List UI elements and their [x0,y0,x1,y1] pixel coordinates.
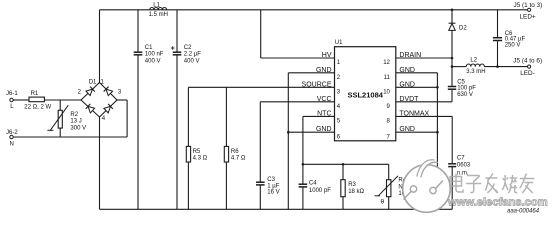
node rail/D2 junction [451,9,454,12]
inductor L2 3.3 mH [466,57,485,75]
svg-text:SOURCE: SOURCE [302,81,332,88]
svg-text:C7: C7 [457,155,465,161]
svg-text:100 nF: 100 nF [145,51,164,57]
svg-text:R2: R2 [70,112,78,118]
node NTC/R3 junction [342,163,345,166]
wire top rail [100,9,528,11]
resistor R3 18 kOhm [341,164,365,209]
svg-text:N: N [10,141,14,147]
inductor L1 1.5 mH [149,2,168,18]
wire GND pin 11 net [396,73,438,210]
svg-text:LED-: LED- [520,70,535,77]
svg-text:LED+: LED+ [520,14,536,21]
svg-text:C4: C4 [309,181,317,187]
wire GND pin 7 [396,131,438,133]
wire switch node vertical top [451,10,453,23]
svg-text:630 V: 630 V [457,92,473,98]
svg-text:0603: 0603 [457,162,471,168]
U1 right pin numbers 12-7 [383,60,390,140]
wire N line [13,136,127,138]
thermistor R4 NTC 100 kOhm [375,164,418,209]
wire GND pin 6 [288,131,334,133]
svg-text:11: 11 [384,75,391,81]
wire TONMAX net [396,116,452,163]
capacitor C7 0603 n.m. [448,155,471,209]
svg-text:L1: L1 [153,2,160,8]
capacitor C6 0.47 uF 250 V [493,10,526,67]
svg-text:GND: GND [316,67,332,74]
capacitor C4 1000 pF [299,164,332,209]
svg-text:10: 10 [383,89,390,95]
svg-text:GND: GND [316,126,332,133]
svg-text:4.7 Ω: 4.7 Ω [231,156,246,162]
wire LED- line right [484,66,527,68]
resistor R5 4.3 Ohm [186,87,207,209]
wire HV net from rail to pin 1 [261,10,335,58]
svg-text:D1: D1 [89,80,97,86]
svg-text:www.elecfans.com: www.elecfans.com [447,196,548,208]
svg-text:θ: θ [381,198,385,205]
svg-text:300 V: 300 V [70,126,86,132]
svg-text:n.m.: n.m. [457,171,469,177]
watermark logo circle [403,160,451,213]
diode D2 [449,23,468,31]
varistor R2 13 J 300 V [47,100,86,137]
svg-text:R5: R5 [193,149,201,155]
svg-text:1 µF: 1 µF [267,183,279,189]
wire DVDT to pin 9 [396,101,452,103]
capacitor C1 100 nF 400 V [134,10,164,210]
svg-text:2.2 µF: 2.2 µF [184,51,201,57]
svg-text:100 pF: 100 pF [457,86,476,92]
junction pin7 gnd [436,131,439,134]
bridge rectifier D1 [78,80,122,122]
wire VCC net [260,101,334,103]
wire DRAIN to switch node [396,57,452,59]
capacitor C3 1 uF 16 V [256,102,280,210]
svg-text:16 V: 16 V [267,190,279,196]
svg-text:J5 (4 to 6): J5 (4 to 6) [513,57,542,64]
connector J6-2 (N) [6,130,18,147]
wire rail to bridge node 1 [99,10,101,83]
U1 left pin labels [302,52,332,133]
U1 right pin labels [399,52,429,133]
op-amp U1 SSL21084 IC box [335,40,396,141]
svg-text:3.3 mH: 3.3 mH [466,69,485,75]
wire NTC net [303,116,335,164]
connector J5 (4 to 6) LED- [513,57,542,77]
svg-text:NTC: NTC [317,110,331,117]
wire GND pin 2 net [288,73,334,210]
wire SOURCE net [188,86,334,88]
svg-text:R3: R3 [348,182,356,188]
junction pin10 gnd [436,86,439,89]
svg-text:400 V: 400 V [184,58,200,64]
connector J5 (1 to 3) LED+ [514,2,543,21]
wire N to bridge node 3 [117,100,127,137]
wire GND pin 10 [396,86,438,88]
capacitor C5 100 pF 630 V [448,79,476,101]
svg-text:J6-1: J6-1 [6,91,18,97]
svg-text:1000 pF: 1000 pF [309,188,331,194]
capacitor C2 2.2 uF 400 V (polarized) [171,10,201,210]
svg-text:SSL21084: SSL21084 [347,90,383,99]
wire NTC bottom row [303,163,389,165]
ground rail [100,208,453,210]
node NTC/C4 junction [302,163,305,166]
wire LED- line [452,66,466,68]
svg-text:22 Ω, 2 W: 22 Ω, 2 W [24,105,51,111]
svg-text:4.3 Ω: 4.3 Ω [193,156,208,162]
resistor R1 22 &#937;, 2 W [13,91,81,111]
svg-text:VCC: VCC [317,96,332,103]
svg-text:U1: U1 [335,40,343,46]
svg-text:12: 12 [383,60,390,66]
svg-text:13 J: 13 J [70,119,81,125]
svg-text:C2: C2 [184,45,192,51]
svg-text:J5 (1 to 3): J5 (1 to 3) [514,2,543,9]
junction pin6 gnd [287,131,290,134]
svg-text:400 V: 400 V [145,58,161,64]
svg-text:250 V: 250 V [505,42,521,48]
resistor R6 4.7 Ohm [224,87,246,209]
svg-text:C1: C1 [145,45,153,51]
svg-text:R6: R6 [231,149,239,155]
svg-text:D2: D2 [459,25,467,31]
node drain junction [451,57,454,60]
svg-text:18 kΩ: 18 kΩ [348,189,364,195]
U1 left pin numbers 1-6 [337,60,341,140]
node C6/LED- junction [496,65,499,68]
node switch/LED- junction [451,65,454,68]
wire switch node vertical mid [451,30,453,85]
svg-text:1.5 mH: 1.5 mH [149,12,168,18]
svg-text:C5: C5 [457,79,465,85]
svg-text:aaa-000464: aaa-000464 [507,209,540,215]
svg-text:R1: R1 [31,91,39,97]
svg-text:L2: L2 [470,57,477,63]
svg-text:HV: HV [322,52,332,59]
wire bridge node 4 to ground rail [99,117,101,209]
connector J6-1 (L) [6,91,18,110]
svg-text:J6-2: J6-2 [6,130,18,136]
watermark chinese text [450,174,534,194]
svg-text:C3: C3 [267,177,275,183]
